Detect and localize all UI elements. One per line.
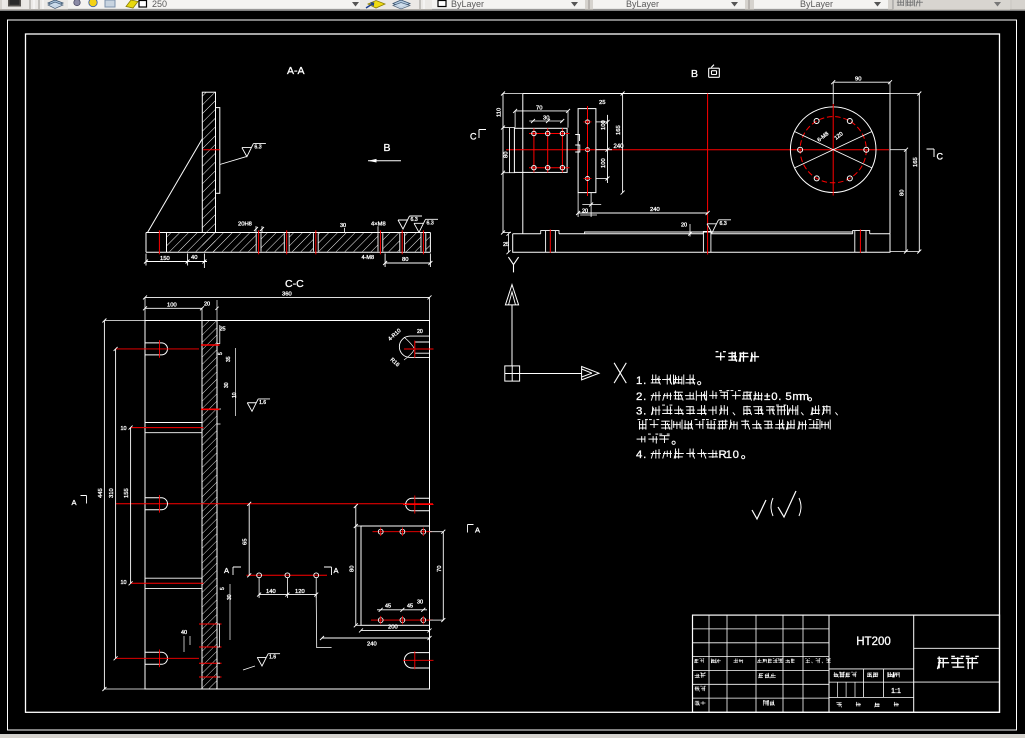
title block sheet row <box>836 703 842 708</box>
C-C strip red tick marks <box>201 344 220 346</box>
svg-text:m: m <box>799 391 809 403</box>
C-C hatched rib strip <box>202 321 217 690</box>
B view base plate outline <box>513 234 890 252</box>
screen tool icon <box>6 0 23 8</box>
svg-text:.: . <box>643 405 646 417</box>
A-A roughness symbol right 2 <box>414 219 438 232</box>
A-A base hole section <box>400 233 405 251</box>
C-C lower right block outline <box>361 526 430 625</box>
svg-text:80: 80 <box>349 566 355 572</box>
svg-text:25: 25 <box>599 100 605 106</box>
B view rib outer dim line <box>622 94 624 193</box>
svg-text:100: 100 <box>601 158 607 168</box>
A-A left pad red hole centerline <box>158 230 160 254</box>
UCS icon X letter <box>614 363 626 383</box>
layer thaw sun icon <box>89 0 97 7</box>
toolbar separator <box>588 0 590 9</box>
C-C left dim line 310 <box>115 349 117 658</box>
svg-text:10: 10 <box>121 426 127 432</box>
svg-text:10: 10 <box>121 580 127 586</box>
svg-text:240: 240 <box>650 207 660 213</box>
svg-text:A: A <box>334 566 339 575</box>
C-C lower block bottom dim 240 <box>322 637 430 639</box>
svg-text:.: . <box>643 391 646 403</box>
svg-text:140: 140 <box>266 589 276 595</box>
lineweight combo box <box>754 0 888 9</box>
B view left flange plate <box>514 128 567 172</box>
C-C strip red ticks bottom <box>199 623 222 625</box>
A-A base hole section <box>284 233 289 251</box>
C-C lower block bottom dim 200 <box>361 629 430 631</box>
svg-text:70: 70 <box>536 106 542 112</box>
svg-text:B: B <box>691 68 698 80</box>
svg-text:4-M8: 4-M8 <box>362 255 375 261</box>
C-C far section marker A right <box>468 525 474 533</box>
roughness note parentheses and check <box>771 498 773 516</box>
C-C right slot bottom <box>404 653 429 668</box>
svg-text:.: . <box>643 449 646 461</box>
B view base left boss hole <box>545 231 547 253</box>
title block middle section dividers <box>829 668 914 670</box>
svg-text:25: 25 <box>220 327 226 333</box>
B view base right boss hole <box>854 231 856 253</box>
C-C web hole upper white edges <box>145 422 202 424</box>
title block outer frame <box>693 615 1000 712</box>
B view bolt circle red <box>800 117 866 183</box>
C-C strip bottom step details <box>217 624 220 677</box>
B view body outline <box>523 94 890 234</box>
C-C left slot bottom <box>145 652 168 664</box>
layer combo box <box>68 0 360 9</box>
svg-text:45: 45 <box>407 604 413 610</box>
svg-text:120: 120 <box>295 589 305 595</box>
svg-text:165: 165 <box>616 125 622 135</box>
svg-text:200: 200 <box>388 625 398 631</box>
B view rib bolt holes <box>586 120 590 124</box>
B view rib bottom small dims <box>590 193 592 217</box>
svg-text:1.6: 1.6 <box>269 655 276 661</box>
make object layer current icon <box>366 1 385 9</box>
C-C left dim line outer 445 <box>103 321 105 690</box>
title block design row label <box>695 673 706 678</box>
B view base center hole edges <box>702 232 704 253</box>
title block stage cells <box>837 682 839 697</box>
svg-text:30: 30 <box>340 223 346 229</box>
svg-text:80: 80 <box>900 190 906 196</box>
A-A base hole section <box>421 233 426 251</box>
svg-text:20H8: 20H8 <box>238 222 252 228</box>
svg-text:1: 1 <box>636 375 642 387</box>
svg-text:0: 0 <box>771 391 777 403</box>
title block left grid verticals <box>708 615 710 712</box>
A-A gusset diagonal <box>148 139 203 233</box>
toolbar button area highlight <box>2 0 432 9</box>
C-C section marker A upper-right <box>324 567 332 575</box>
svg-text:ByLayer: ByLayer <box>626 0 659 9</box>
svg-text:1: 1 <box>726 449 732 461</box>
svg-text:250: 250 <box>152 0 167 9</box>
title block craft row label <box>695 701 706 706</box>
B view rib plate <box>578 109 596 193</box>
technical requirements line 1 <box>636 374 701 386</box>
color swatch ByLayer <box>438 1 446 7</box>
A-A dimension below left <box>146 261 207 263</box>
C-C main red horizontal centerline <box>116 503 434 505</box>
toolbar separator <box>419 0 421 9</box>
technical requirements heading <box>716 352 760 362</box>
svg-text:110: 110 <box>497 108 503 117</box>
color combo arrow <box>571 2 578 7</box>
toolbar background <box>0 0 1025 11</box>
title block header row labels <box>694 659 704 664</box>
svg-text:10: 10 <box>232 392 238 398</box>
C-C dim extension to lower right block <box>316 595 331 648</box>
svg-text:6.3: 6.3 <box>720 221 727 227</box>
svg-text:3: 3 <box>636 405 642 417</box>
svg-text:5: 5 <box>785 391 791 403</box>
title block standardization label <box>759 673 776 678</box>
svg-text:445: 445 <box>98 488 104 498</box>
lineweight combo arrow <box>874 2 881 7</box>
C-C top dim line 360 <box>145 296 430 298</box>
technical requirements line 6 <box>636 448 745 460</box>
C-C main outline rectangle <box>145 321 430 690</box>
C-C dim below hole row <box>259 594 316 596</box>
svg-text:±: ± <box>764 391 770 403</box>
B view rib right dim chain <box>607 115 609 183</box>
svg-text:35: 35 <box>226 356 232 362</box>
svg-text:80: 80 <box>504 152 510 158</box>
B view main horizontal red centerline <box>506 149 889 151</box>
B view circle red vertical centerline <box>832 104 834 196</box>
toolbar separator <box>29 0 31 9</box>
plot style combo arrow <box>994 2 1001 7</box>
svg-text:1:1: 1:1 <box>891 688 901 695</box>
C-C lower right block top hole row <box>373 531 433 533</box>
svg-text:20: 20 <box>204 302 210 308</box>
linetype combo box <box>593 0 745 9</box>
svg-text:ByLayer: ByLayer <box>451 0 484 9</box>
title block left grid horizontals <box>693 628 830 630</box>
svg-text:HT200: HT200 <box>856 636 891 648</box>
svg-text:B: B <box>384 142 391 154</box>
C-C left slot top <box>145 343 168 355</box>
layer previous icon <box>393 0 410 9</box>
A-A base plate hatch <box>167 233 430 252</box>
A-A dimension below right <box>385 262 430 264</box>
A-A vertical plate hatched <box>202 92 215 252</box>
B view circle spoke 2 <box>795 132 872 168</box>
B view bottom dim line 240 <box>578 212 708 214</box>
C-C web hole upper red centerline <box>131 427 204 429</box>
svg-text:150: 150 <box>160 256 170 262</box>
svg-text:20: 20 <box>582 209 588 215</box>
B view right dim 80 <box>905 150 907 252</box>
C-C lower block left dim 80 <box>355 506 357 625</box>
B view roughness symbol base <box>707 220 731 233</box>
svg-text:6.3: 6.3 <box>254 145 261 151</box>
A-A base hole section <box>378 233 383 251</box>
svg-text:A: A <box>224 566 229 575</box>
svg-text:70: 70 <box>437 566 443 572</box>
technical requirements line 5 <box>637 434 676 444</box>
title block part name box divider <box>914 647 1000 649</box>
A-A roughness symbol right 1 <box>398 216 422 229</box>
C-C left slot middle <box>145 498 168 510</box>
svg-text:30: 30 <box>417 600 423 606</box>
status bar sliver bottom <box>0 735 1025 738</box>
B view section mark C right <box>927 149 935 157</box>
B view flange bolt dim ticks <box>529 120 563 122</box>
svg-text:C-C: C-C <box>285 278 304 290</box>
svg-text:2: 2 <box>636 391 642 403</box>
svg-text:C: C <box>937 152 944 162</box>
B view flange top dim chain <box>515 110 568 112</box>
svg-text:90: 90 <box>855 77 861 83</box>
B view large flange circle <box>790 107 876 193</box>
layer plot icon <box>126 0 138 8</box>
C-C rib strip top step <box>217 325 221 424</box>
svg-text:6.3: 6.3 <box>411 217 418 223</box>
svg-text:4: 4 <box>636 449 642 461</box>
svg-text:40: 40 <box>181 630 187 636</box>
layer combo dropdown arrow <box>352 2 359 7</box>
layer lock icon <box>105 0 115 7</box>
technical requirements line 2 <box>636 391 812 403</box>
svg-text:40: 40 <box>191 255 197 261</box>
toolbar separator <box>748 0 750 9</box>
C-C lower right block bottom hole row <box>371 619 433 621</box>
svg-text:30: 30 <box>543 116 549 122</box>
layer on bulb icon <box>74 0 80 6</box>
A-A base hole section <box>256 233 261 251</box>
svg-text:20: 20 <box>681 223 687 229</box>
C-C web hole lower white edges <box>145 577 202 579</box>
svg-text:A: A <box>72 498 77 507</box>
C-C lower block tick dim row <box>377 609 427 611</box>
svg-text:20: 20 <box>417 329 423 335</box>
layer color swatch <box>139 1 147 8</box>
UCS icon Y axis arrow <box>505 285 518 305</box>
C-C left dim line 155 <box>130 428 132 584</box>
svg-text:65: 65 <box>243 539 249 545</box>
svg-text:5: 5 <box>218 352 224 355</box>
svg-text:310: 310 <box>109 488 115 498</box>
svg-text:6.3: 6.3 <box>427 220 434 226</box>
svg-text:A: A <box>475 526 480 535</box>
A-A red centerline across plate <box>203 149 220 151</box>
A-A base hole section <box>313 233 318 251</box>
B view flange red bolt horizontals <box>529 133 570 135</box>
svg-text:240: 240 <box>614 144 625 150</box>
A-A thin side plate <box>216 108 220 194</box>
C-C right slot top <box>399 336 429 357</box>
C-C web hole lower red centerline <box>131 582 204 584</box>
C-C roughness symbol bottom <box>257 654 280 666</box>
UCS icon Y letter <box>508 257 518 272</box>
svg-text:C: C <box>470 132 477 142</box>
svg-text:80: 80 <box>402 257 408 263</box>
svg-text:240: 240 <box>367 642 377 648</box>
A-A base plate outline <box>146 233 430 253</box>
title block scale label <box>888 672 899 677</box>
svg-text:45: 45 <box>385 604 391 610</box>
C-C lower block right dim 70 <box>442 532 444 620</box>
svg-text:ByLayer: ByLayer <box>800 0 833 9</box>
C-C roughness symbol mid <box>247 399 270 411</box>
C-C right slot middle <box>406 498 430 511</box>
C-C top dim line 100 <box>145 307 202 309</box>
B view flange bolt holes <box>532 131 536 135</box>
svg-text:155: 155 <box>124 488 130 498</box>
svg-text:.: . <box>778 391 781 403</box>
B view rib red centerline <box>587 106 589 196</box>
color combo box <box>432 0 585 9</box>
linetype combo arrow <box>731 2 738 7</box>
B view circle spoke 1 <box>795 132 872 168</box>
B view circle top dim 90 <box>833 81 890 83</box>
C-C vertical dim 65 <box>248 504 250 576</box>
technical requirements line 4 <box>638 420 831 430</box>
technical requirements line 3 <box>636 405 838 417</box>
title block stage mark label <box>834 672 857 677</box>
B view base machined strip <box>541 231 870 234</box>
A-A roughness symbol on side plate <box>220 157 247 165</box>
roughness note check small <box>752 500 766 519</box>
B view section C squiggle <box>575 135 580 153</box>
title block weight label <box>867 672 878 677</box>
B view flange bolt holes on circle <box>864 147 869 152</box>
B view main vertical red centerline <box>707 94 709 255</box>
svg-text:100: 100 <box>167 303 177 309</box>
svg-text:.: . <box>643 375 646 387</box>
svg-text:100: 100 <box>601 120 607 130</box>
svg-text:A-A: A-A <box>287 65 305 77</box>
layer properties icon <box>48 0 63 9</box>
plot style combo text <box>896 0 922 6</box>
plot style combo box disabled <box>893 0 1010 9</box>
title block part name <box>937 656 978 669</box>
C-C section A-A hole row upper <box>247 574 328 576</box>
svg-text:1.6: 1.6 <box>259 400 266 406</box>
title block audit row label <box>695 686 706 691</box>
svg-text:165: 165 <box>913 157 919 167</box>
B view right dim 165 <box>918 94 920 252</box>
svg-text:5: 5 <box>220 587 226 590</box>
B view flange red bolt verticals <box>533 128 535 172</box>
UCS icon X axis arrow <box>520 373 582 375</box>
UCS icon origin box <box>505 366 520 381</box>
B view left dim lines <box>502 94 504 233</box>
svg-text:360: 360 <box>282 292 292 298</box>
title block approve label <box>763 700 774 705</box>
svg-text:30: 30 <box>224 382 230 388</box>
svg-text:0: 0 <box>733 449 739 461</box>
